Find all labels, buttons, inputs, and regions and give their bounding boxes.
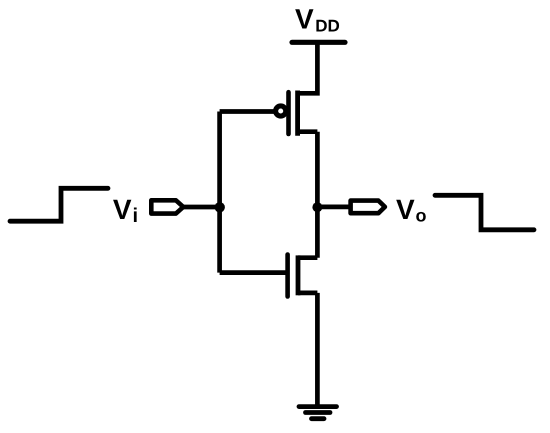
node output junction [312,202,322,212]
input step waveform [10,188,108,221]
input port Vi [151,200,183,213]
wire Vi port to input node [183,205,219,210]
node input junction [215,202,225,212]
svg-text:V: V [396,194,415,225]
svg-text:V: V [295,4,314,35]
output port Vo [351,201,385,214]
wire NMOS source to ground [315,293,320,407]
wire NMOS gate to input node [220,270,288,275]
output step waveform [435,195,534,230]
transistor M1 NMOS [288,255,318,297]
wire input node vertical (gate net) [217,112,222,273]
wire PMOS gate to input node [220,109,275,114]
wire output node to Vo port [317,205,350,210]
svg-text:DD: DD [315,16,340,35]
svg-text:V: V [113,194,132,225]
ground [299,407,337,419]
power rail VDD [292,40,345,45]
wire PMOS drain to output node to NMOS drain [315,132,320,258]
label Vo [396,194,427,225]
svg-text:i: i [133,205,139,227]
label Vi [113,194,138,227]
label VDD [295,4,340,36]
svg-text:o: o [416,206,427,226]
wire VDD stem to PMOS source [298,42,318,93]
transistor M2 PMOS [276,91,318,136]
